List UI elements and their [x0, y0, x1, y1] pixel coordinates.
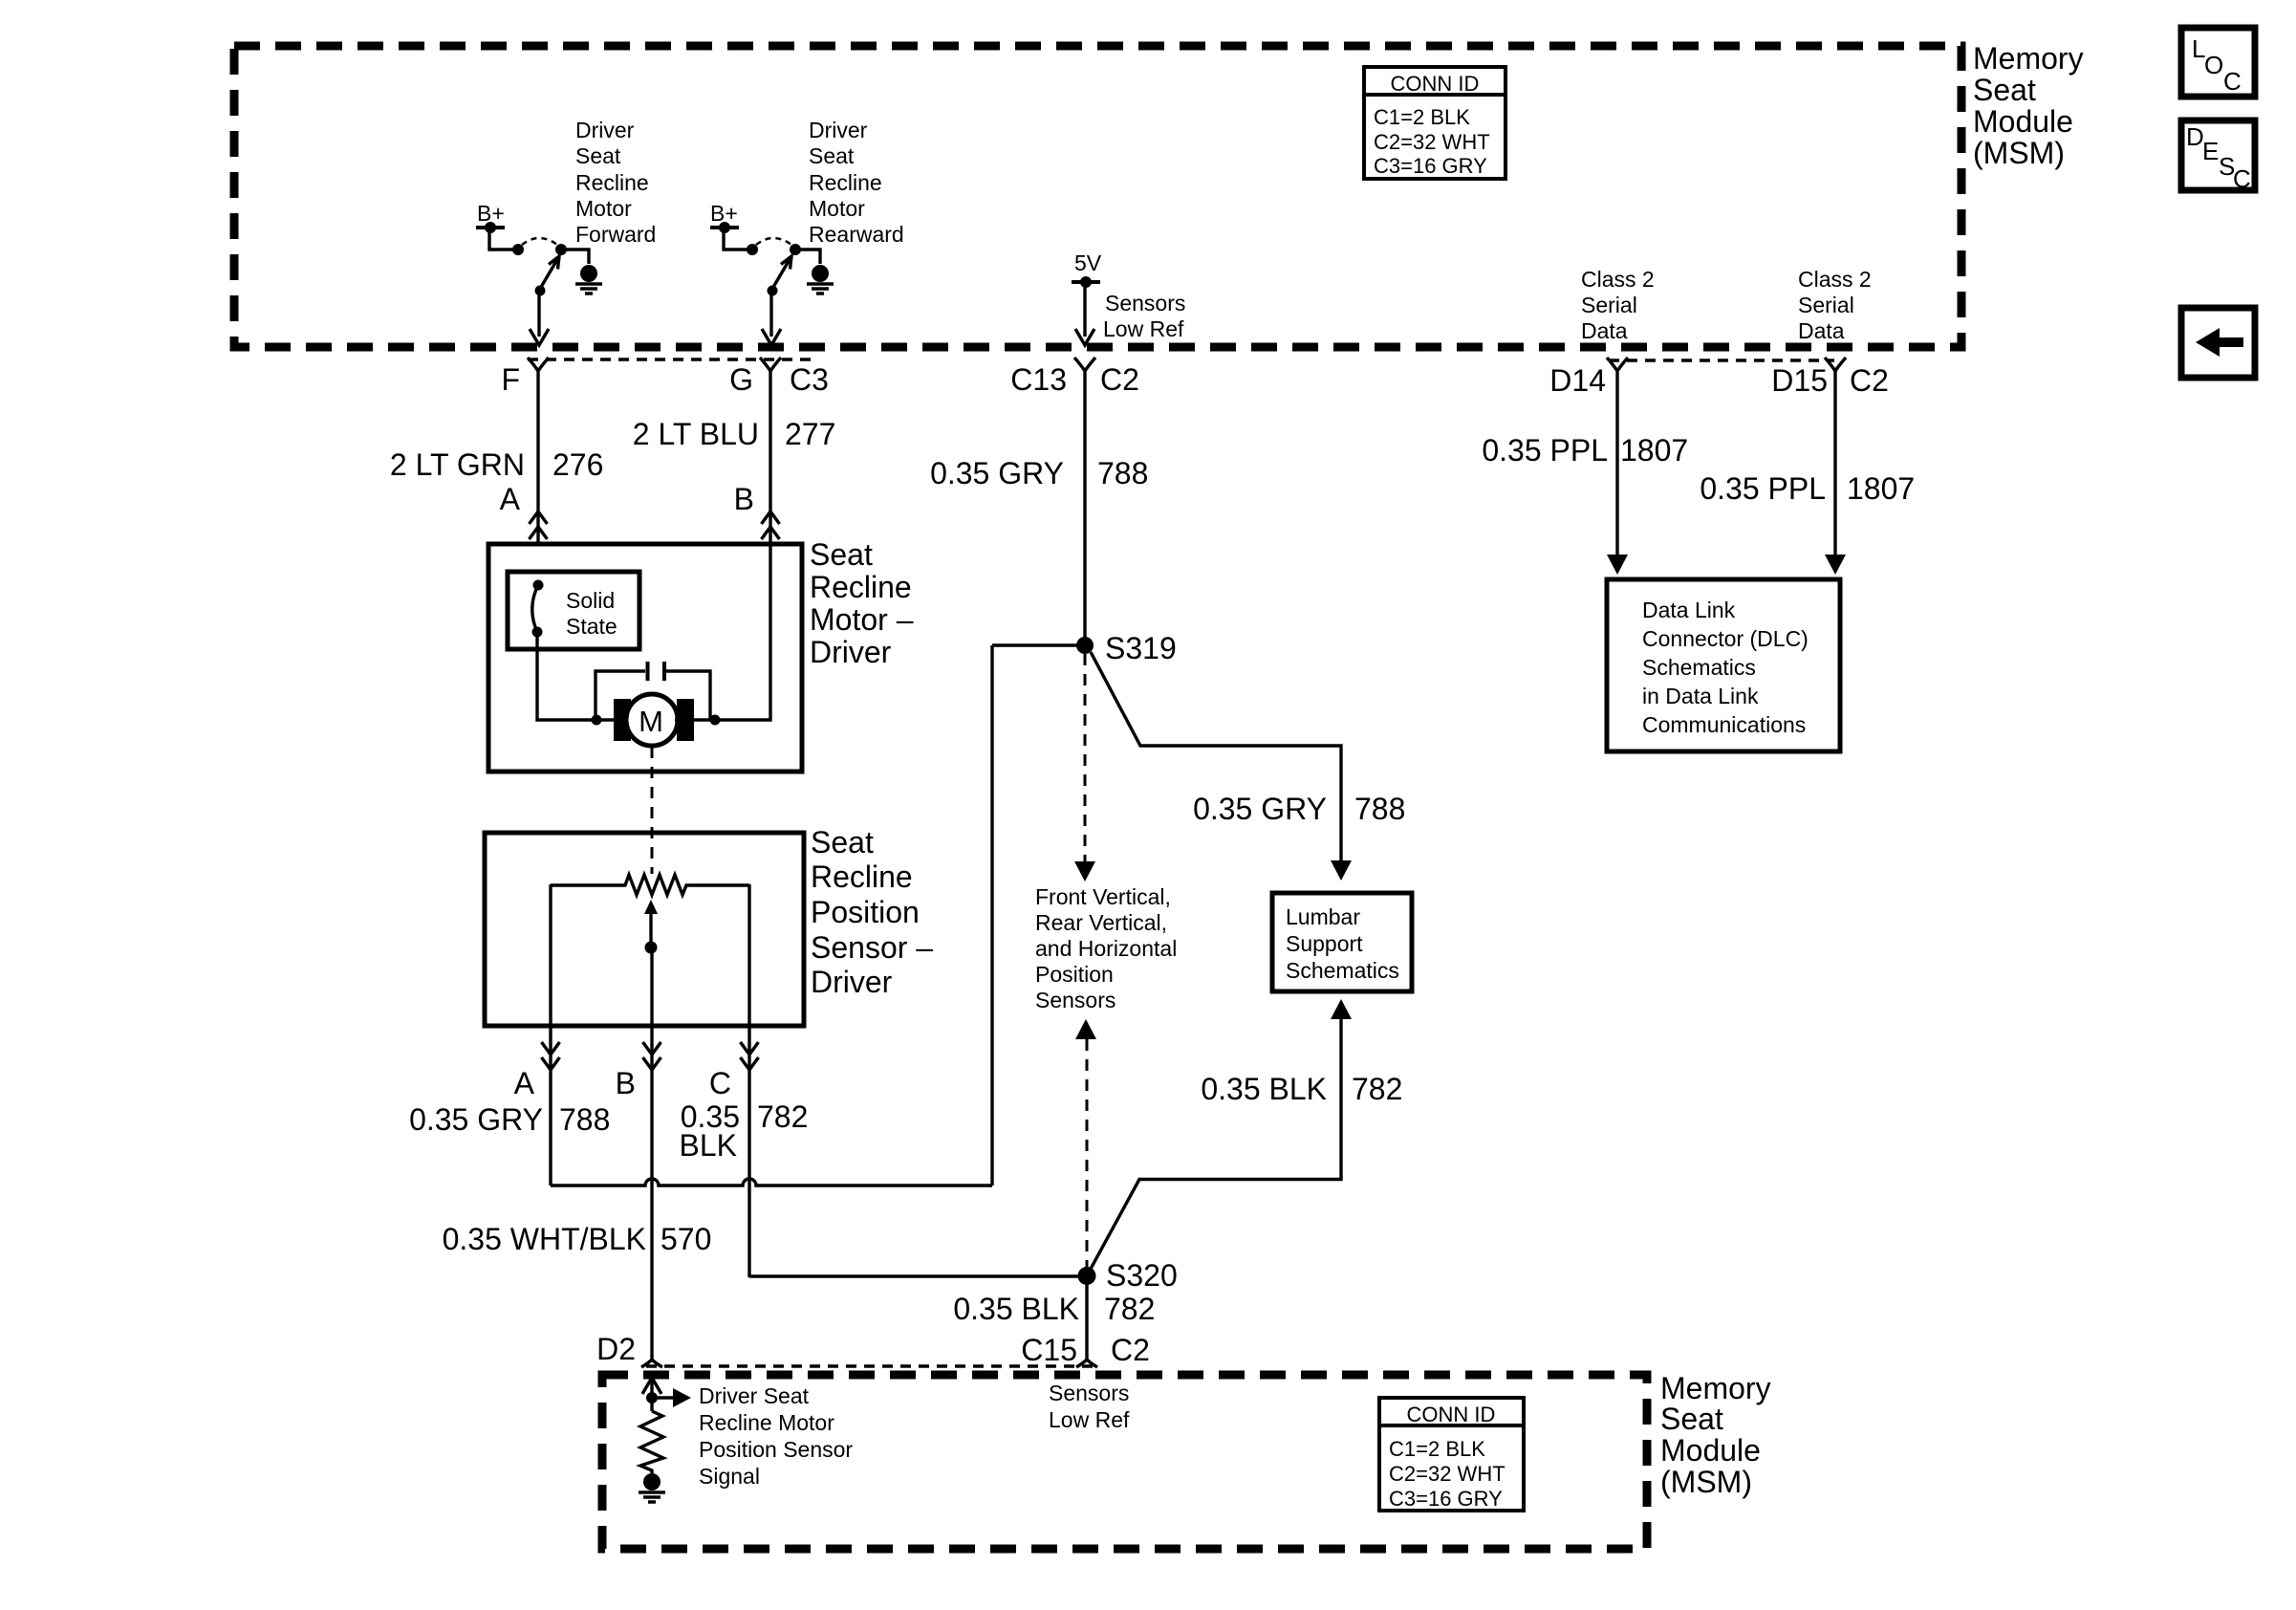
svg-text:E: E: [2202, 137, 2219, 165]
svg-text:D14: D14: [1549, 363, 1606, 398]
svg-text:Support: Support: [1286, 931, 1363, 956]
svg-text:277: 277: [785, 417, 835, 451]
svg-text:A: A: [514, 1066, 535, 1100]
svg-text:C3=16 GRY: C3=16 GRY: [1374, 154, 1487, 178]
Solid State box: [508, 572, 639, 649]
svg-text:Schematics: Schematics: [1286, 958, 1399, 983]
svg-text:782: 782: [757, 1099, 808, 1134]
svg-text:Motor –: Motor –: [810, 602, 914, 637]
svg-text:Serial: Serial: [1581, 293, 1637, 317]
svg-text:C2: C2: [1100, 362, 1139, 397]
connector pin G / C3: [760, 358, 781, 379]
5V supply: [1072, 250, 1102, 288]
svg-text:Data Link: Data Link: [1642, 598, 1736, 622]
svg-text:570: 570: [661, 1222, 711, 1256]
svg-text:C: C: [2223, 67, 2242, 96]
svg-text:Communications: Communications: [1642, 712, 1806, 737]
svg-text:G: G: [729, 362, 753, 397]
wire switch to connector F: [537, 294, 540, 337]
wire C13 to S319 (0.35 GRY 788): [1083, 379, 1086, 645]
svg-text:S319: S319: [1105, 631, 1177, 665]
svg-text:Front Vertical,: Front Vertical,: [1035, 884, 1171, 909]
svg-text:0.35 GRY: 0.35 GRY: [930, 456, 1064, 490]
svg-text:Recline: Recline: [809, 170, 882, 195]
CONN ID table (top): [1364, 67, 1505, 179]
svg-text:Class 2: Class 2: [1581, 267, 1655, 292]
svg-text:CONN ID: CONN ID: [1391, 72, 1480, 96]
wire S320 to C15 (0.35 BLK 782): [1085, 1275, 1088, 1357]
svg-text:C: C: [2233, 164, 2251, 193]
svg-text:Recline: Recline: [810, 570, 912, 604]
CONN ID table (bottom): [1379, 1398, 1524, 1511]
resistor (sensor): [640, 1411, 663, 1473]
svg-text:0.35 PPL: 0.35 PPL: [1482, 433, 1608, 468]
svg-text:A: A: [500, 482, 521, 516]
svg-text:Recline: Recline: [575, 170, 649, 195]
svg-text:Motor: Motor: [575, 196, 632, 221]
svg-text:Forward: Forward: [575, 222, 656, 247]
svg-text:(MSM): (MSM): [1660, 1465, 1752, 1499]
svg-text:Driver Seat: Driver Seat: [699, 1383, 810, 1408]
svg-text:2 LT GRN: 2 LT GRN: [390, 447, 525, 482]
wire solid state to motor: [537, 632, 631, 720]
svg-text:F: F: [501, 362, 520, 397]
svg-text:0.35 GRY: 0.35 GRY: [1193, 792, 1327, 826]
svg-text:C2=32 WHT: C2=32 WHT: [1389, 1462, 1505, 1486]
connector pin D15 / C2: [1825, 358, 1846, 379]
splice chevrons at sensor outputs: [542, 1042, 560, 1070]
svg-text:D: D: [2186, 122, 2204, 151]
ground left: [575, 265, 602, 294]
svg-text:C3: C3: [790, 362, 829, 397]
wire D14 to DLC (0.35 PPL 1807): [1615, 379, 1618, 556]
DESC button: [2181, 120, 2255, 190]
svg-text:BLK: BLK: [680, 1128, 737, 1163]
svg-text:Memory: Memory: [1973, 41, 2084, 76]
signal arrow right: [652, 1396, 674, 1399]
svg-text:Seat: Seat: [1660, 1402, 1723, 1436]
wire D15 to DLC (0.35 PPL 1807): [1833, 379, 1836, 556]
dashed mechanical link motor to position sensor: [651, 747, 654, 874]
svg-text:and Horizontal: and Horizontal: [1035, 936, 1177, 961]
svg-text:788: 788: [1097, 456, 1148, 490]
connector pin C15 / C2: [1076, 1356, 1097, 1367]
solid state switch contacts: [533, 580, 544, 591]
wire S319 horizontal: [992, 643, 1085, 646]
svg-text:CONN ID: CONN ID: [1407, 1403, 1496, 1426]
svg-text:C: C: [709, 1066, 731, 1100]
switch throw arc right (dashed): [756, 238, 791, 245]
back arrow button: [2181, 308, 2255, 378]
svg-text:Class 2: Class 2: [1798, 267, 1872, 292]
Memory Seat Module (MSM) top dashed box: [234, 46, 1961, 347]
svg-text:782: 782: [1104, 1292, 1155, 1326]
splice S319: [1076, 637, 1094, 654]
ground right: [807, 265, 834, 294]
svg-text:Seat: Seat: [1973, 73, 2036, 107]
svg-text:D2: D2: [596, 1332, 636, 1366]
svg-text:0.35 BLK: 0.35 BLK: [953, 1292, 1079, 1326]
svg-text:Data: Data: [1581, 318, 1628, 343]
svg-text:Low Ref: Low Ref: [1103, 316, 1184, 341]
svg-text:788: 788: [559, 1102, 610, 1137]
svg-text:Position: Position: [811, 895, 920, 929]
svg-text:Memory: Memory: [1660, 1371, 1771, 1405]
svg-text:Driver: Driver: [811, 965, 893, 999]
wire S319 to lumbar (0.35 GRY 788): [1091, 652, 1341, 863]
wire switch to connector G: [769, 294, 772, 337]
svg-text:Lumbar: Lumbar: [1286, 904, 1360, 929]
svg-text:Seat: Seat: [809, 143, 855, 168]
connector pin D14: [1607, 358, 1628, 379]
switch Driver Seat Recline Motor Rearward: [768, 244, 821, 296]
svg-text:M: M: [639, 705, 663, 738]
svg-text:Module: Module: [1660, 1433, 1761, 1468]
svg-text:5V: 5V: [1074, 250, 1102, 275]
svg-text:Position: Position: [1035, 962, 1114, 987]
svg-text:D15: D15: [1771, 363, 1828, 398]
svg-text:B: B: [734, 482, 754, 516]
svg-text:in Data Link: in Data Link: [1642, 684, 1759, 708]
svg-text:Seat: Seat: [810, 537, 873, 572]
svg-text:Data: Data: [1798, 318, 1845, 343]
svg-text:C2: C2: [1111, 1333, 1150, 1367]
svg-text:Position Sensor: Position Sensor: [699, 1437, 853, 1462]
connector line C3 (fine dashed): [528, 358, 812, 361]
potentiometer resistor: [551, 875, 749, 895]
svg-text:O: O: [2204, 51, 2223, 79]
svg-text:C15: C15: [1021, 1333, 1077, 1367]
wire S320 to lumbar (0.35 BLK 782): [1331, 999, 1352, 1019]
svg-text:S320: S320: [1106, 1258, 1178, 1293]
motor M: [614, 699, 631, 741]
switch Driver Seat Recline Motor Forward: [535, 244, 590, 296]
Seat Recline Motor - Driver box: [488, 544, 802, 772]
svg-text:Low Ref: Low Ref: [1049, 1407, 1130, 1432]
svg-text:276: 276: [552, 447, 603, 482]
svg-text:Driver: Driver: [575, 118, 635, 142]
svg-text:Rearward: Rearward: [809, 222, 904, 247]
svg-text:Sensors: Sensors: [1035, 988, 1116, 1012]
Memory Seat Module (MSM) bottom dashed box: [602, 1375, 1647, 1549]
svg-text:788: 788: [1354, 792, 1405, 826]
B+ feed right: [710, 201, 758, 255]
svg-text:1807: 1807: [1847, 471, 1915, 506]
svg-text:Recline: Recline: [811, 859, 913, 894]
svg-text:0.35 GRY: 0.35 GRY: [409, 1102, 543, 1137]
wire 5V to connector C13: [1083, 282, 1086, 337]
D2 signal into module: arrow, node, resistor, ground: [642, 1378, 661, 1394]
splice chevrons B: [762, 511, 780, 539]
svg-text:Schematics: Schematics: [1642, 655, 1756, 680]
svg-text:Seat: Seat: [575, 143, 621, 168]
sensor leg B (wiper): [650, 947, 653, 1357]
capacitor across motor: [596, 671, 710, 720]
svg-text:1807: 1807: [1620, 433, 1688, 468]
connector line C2 at D14-D15 (fine dashed): [1609, 359, 1834, 362]
connector pin C13 / C2: [1074, 358, 1095, 379]
Data Link Connector (DLC) box: [1607, 579, 1840, 751]
connector pin F: [528, 358, 549, 379]
dashed wire S319 to other sensors: [1084, 654, 1087, 865]
svg-text:Sensors: Sensors: [1049, 1381, 1129, 1405]
B+ feed left: [476, 201, 524, 255]
splice chevrons A: [530, 511, 548, 539]
svg-text:Sensor –: Sensor –: [811, 930, 933, 965]
wire S319 left leg vertical: [990, 645, 993, 1186]
svg-text:C3=16 GRY: C3=16 GRY: [1389, 1487, 1503, 1511]
Lumbar Support Schematics box: [1272, 893, 1412, 991]
svg-text:C1=2 BLK: C1=2 BLK: [1374, 105, 1470, 129]
svg-text:Driver: Driver: [810, 635, 892, 669]
wire C to S320: [749, 1274, 1087, 1277]
LOC button: [2181, 28, 2255, 97]
dashed wire to S320 with up arrow: [1075, 1019, 1096, 1039]
connector pin D2: [641, 1356, 662, 1367]
svg-text:Driver: Driver: [809, 118, 868, 142]
svg-text:Motor: Motor: [809, 196, 865, 221]
svg-text:(MSM): (MSM): [1973, 136, 2065, 170]
wire G to motor box (2 LT BLU 277): [769, 379, 771, 544]
svg-text:0.35 WHT/BLK: 0.35 WHT/BLK: [443, 1222, 646, 1256]
svg-text:0.35 BLK: 0.35 BLK: [1201, 1072, 1327, 1106]
svg-text:Connector (DLC): Connector (DLC): [1642, 626, 1809, 651]
wire motor to B side: [675, 544, 770, 720]
ground bottom: [639, 1473, 665, 1502]
svg-text:Solid: Solid: [566, 588, 615, 613]
svg-text:Module: Module: [1973, 104, 2073, 139]
svg-text:C13: C13: [1010, 362, 1067, 397]
splice S320: [1078, 1267, 1096, 1285]
switch throw arc left (dashed): [522, 238, 557, 245]
svg-text:Rear Vertical,: Rear Vertical,: [1035, 910, 1167, 935]
svg-text:B: B: [616, 1066, 636, 1100]
sensor leg C: [747, 884, 750, 1277]
svg-text:2 LT BLU: 2 LT BLU: [633, 417, 759, 451]
connector line at D2-C15 (fine dashed): [646, 1364, 1094, 1368]
wire F to motor box (2 LT GRN 276): [536, 379, 539, 544]
Seat Recline Position Sensor - Driver box: [485, 833, 804, 1026]
svg-text:782: 782: [1352, 1072, 1402, 1106]
svg-text:Serial: Serial: [1798, 293, 1854, 317]
svg-text:0.35 PPL: 0.35 PPL: [1700, 471, 1826, 506]
svg-text:C2: C2: [1850, 363, 1889, 398]
sensor leg A: [549, 884, 552, 1186]
wiper arrow: [649, 908, 652, 947]
svg-text:State: State: [566, 614, 617, 639]
svg-text:Signal: Signal: [699, 1464, 760, 1489]
wire A to S319 leg (horizontal with hops): [551, 1179, 992, 1186]
svg-text:Sensors: Sensors: [1105, 291, 1185, 315]
svg-text:Seat: Seat: [811, 825, 874, 859]
svg-text:C2=32 WHT: C2=32 WHT: [1374, 130, 1490, 154]
svg-text:Recline Motor: Recline Motor: [699, 1410, 834, 1435]
svg-text:C1=2 BLK: C1=2 BLK: [1389, 1437, 1485, 1461]
